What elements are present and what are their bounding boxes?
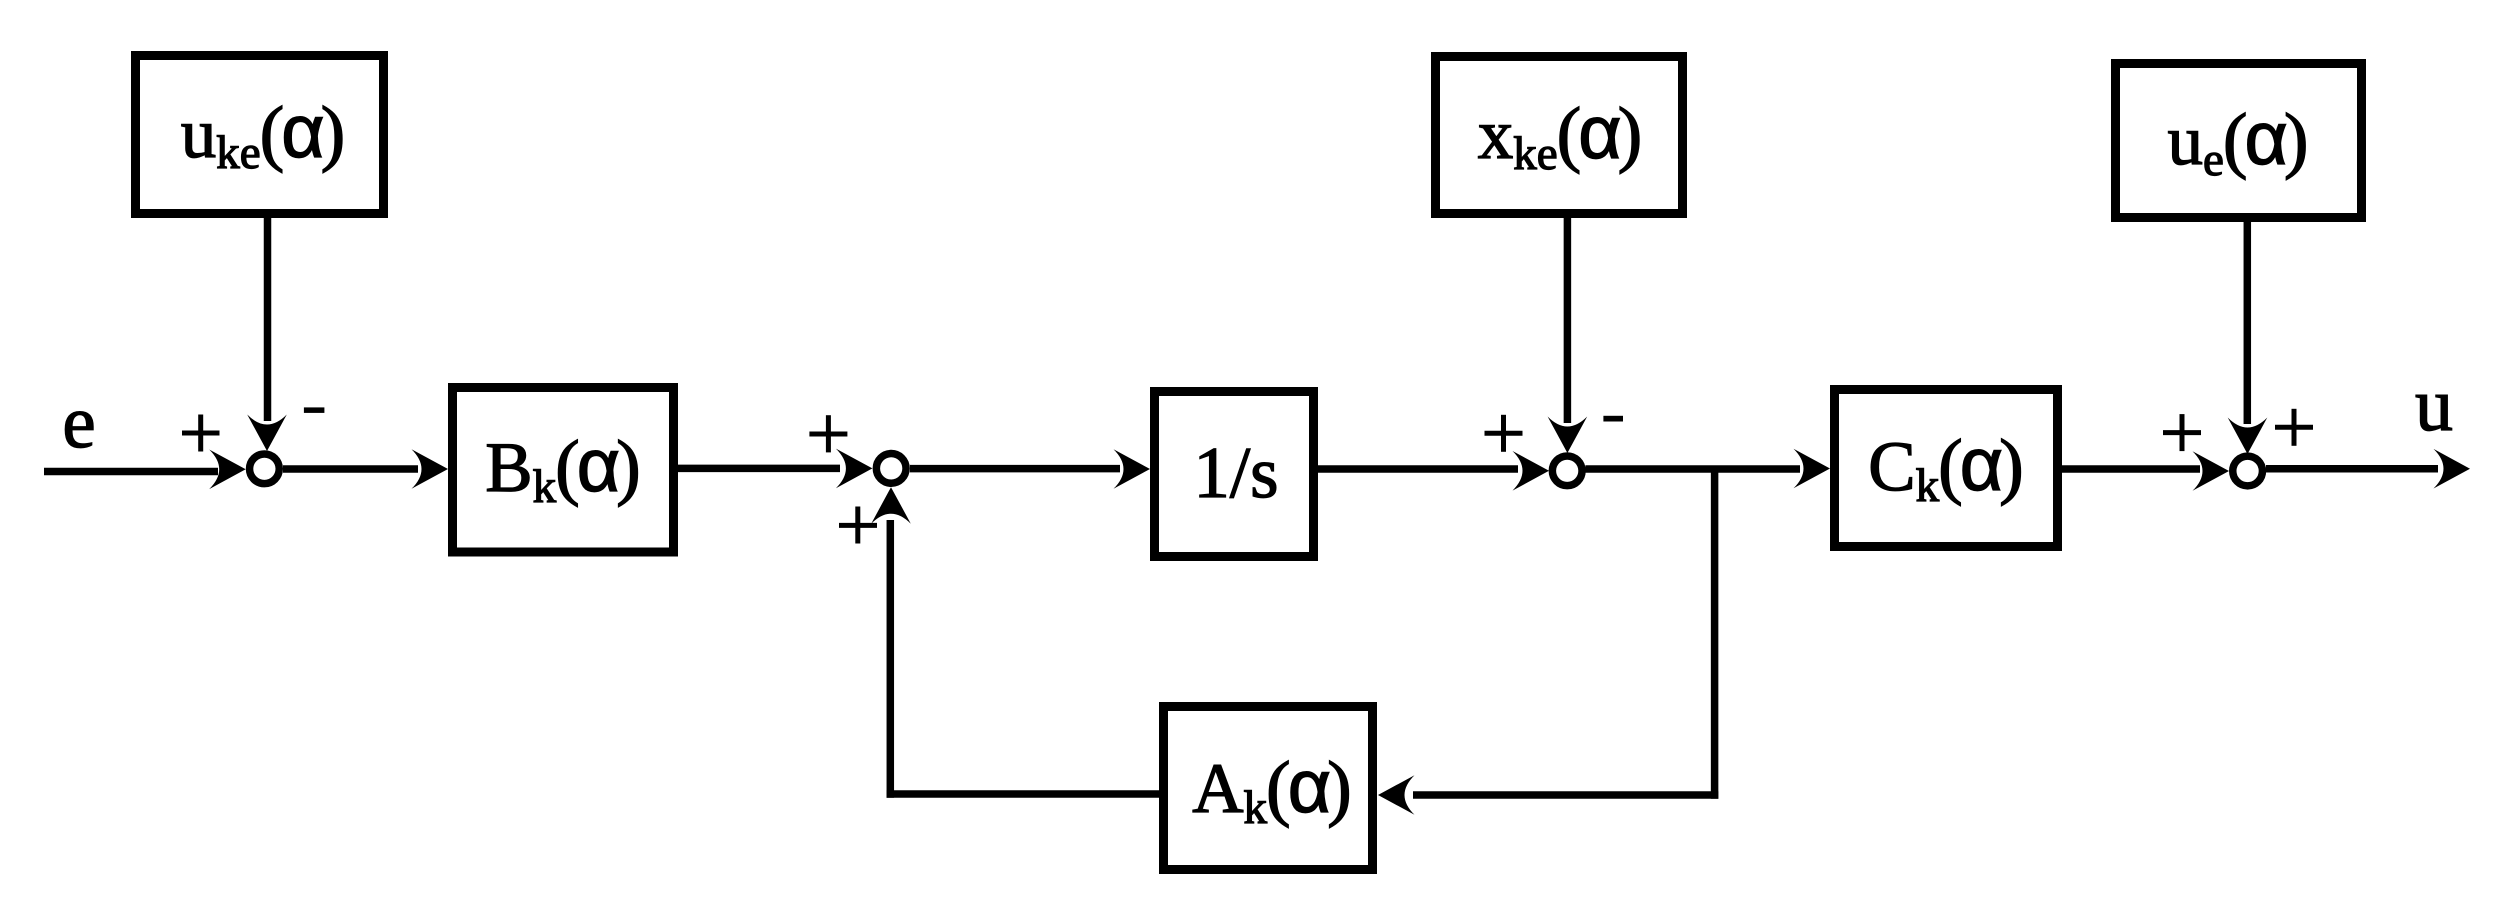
arrowhead into 1/s <box>1114 449 1151 489</box>
sign + at summing junction S4 upper right <box>2275 409 2313 446</box>
svg-text:e: e <box>62 381 95 464</box>
wire S2 to 1/s <box>910 465 1120 473</box>
svg-text:Ck(α): Ck(α) <box>1868 422 2024 512</box>
wire 1/s to S3 <box>1318 465 1518 473</box>
svg-text:Bk(α): Bk(α) <box>485 423 641 513</box>
sign + at summing junction S2 upper left <box>809 415 847 452</box>
svg-text:uke(α): uke(α) <box>181 89 346 179</box>
block x_ke(alpha) <box>1436 57 1683 214</box>
arrowhead into S3 from x_ke <box>1548 417 1588 454</box>
sign - at summing junction S3 top right <box>1603 416 1623 422</box>
wire x_ke drop <box>1564 218 1572 423</box>
arrowhead into Bk <box>412 449 449 489</box>
summing junction S1 <box>250 454 280 484</box>
arrowhead into S4 from u_e <box>2228 418 2268 455</box>
arrowhead into Ck <box>1794 449 1831 489</box>
wire feedback right horizontal <box>1413 791 1718 799</box>
svg-text:xke(α): xke(α) <box>1478 90 1643 180</box>
arrowhead output u <box>2434 449 2471 489</box>
arrowhead into Ak right side <box>1378 775 1415 815</box>
sign + at summing junction S1 left <box>182 415 220 452</box>
arrowhead into S4 from Ck <box>2193 451 2230 491</box>
sign + at summing junction S2 lower left <box>839 507 877 544</box>
wire S3 to Ck <box>1585 465 1800 473</box>
arrowhead into S2 from Bk <box>836 449 873 489</box>
wire S4 to output <box>2266 465 2438 473</box>
arrowhead into S1 from e wire <box>209 450 246 490</box>
summing junction S3 <box>1552 456 1582 486</box>
wire Bk to S2 <box>678 465 840 473</box>
wire S1 to Bk <box>283 465 418 473</box>
arrowhead into S1 from u_ke <box>247 415 287 452</box>
svg-text:u: u <box>2415 363 2453 447</box>
block Ck(alpha) <box>1835 390 2058 547</box>
wire u_e drop <box>2244 222 2252 424</box>
sign - at summing junction S1 top right <box>304 407 325 413</box>
wire u_ke drop <box>264 218 272 421</box>
block Ak(alpha) <box>1164 707 1373 870</box>
wire e input <box>44 468 218 476</box>
arrowhead into S2 from feedback <box>871 487 911 524</box>
block Bk(alpha) <box>453 388 674 553</box>
svg-text:Ak(α): Ak(α) <box>1192 744 1351 834</box>
sign + at summing junction S3 left <box>1485 415 1523 452</box>
summing junction S4 <box>2233 456 2263 486</box>
wire feedback up to S2 <box>887 520 895 798</box>
wire feedback left horizontal <box>887 790 1159 798</box>
summing junction S2 <box>876 454 906 484</box>
wire branch drop after S3 <box>1711 466 1719 799</box>
sign + at summing junction S4 left <box>2163 414 2201 451</box>
svg-text:1/s: 1/s <box>1193 432 1278 513</box>
svg-text:ue(α): ue(α) <box>2167 96 2308 186</box>
wire Ck to S4 <box>2062 465 2200 473</box>
block u_ke(alpha) <box>136 56 384 214</box>
block u_e(alpha) <box>2116 64 2362 218</box>
block 1/s integrator <box>1155 392 1314 557</box>
arrowhead into S3 from 1/s <box>1513 451 1550 491</box>
